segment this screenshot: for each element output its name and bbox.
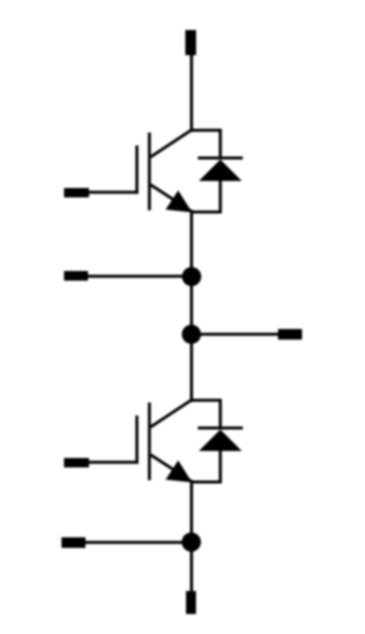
wire (gate lead of Q1) [88, 191, 138, 194]
wire (node B to P4) [192, 333, 279, 336]
terminal P3 (left pin at node A) [64, 271, 88, 281]
node C2 (Q2 collector junction) [190, 399, 220, 402]
terminal P4 (right pin at node B) [278, 329, 302, 340]
wire (Q2 emitter to node D) [190, 480, 193, 543]
diode D1 (anti-parallel with Q1) [198, 129, 243, 214]
wire (P1 to Q1 collector node) [190, 55, 193, 132]
node A (junction dot) [182, 267, 201, 286]
node E1 (Q1 emitter junction) [190, 211, 220, 214]
node D (junction dot, emitter bus) [182, 533, 201, 552]
terminal P5 (Q2 gate pin) [64, 458, 89, 467]
diode D2 (anti-parallel with Q2) [198, 399, 243, 484]
wire (node B to Q2 collector node) [190, 334, 193, 402]
node C1 (Q1 collector junction) [190, 129, 220, 132]
terminal P7 (bottom emitter pin) [186, 591, 196, 614]
wire (node A to P3) [88, 275, 192, 278]
transistor Q2 (lower IGBT) [137, 400, 192, 483]
wire (node D to P6) [86, 541, 192, 544]
wire (node A to node B) [190, 276, 193, 335]
wire (node D to P7) [190, 542, 193, 592]
node B (junction dot, phase output) [182, 325, 201, 344]
transistor Q1 (upper IGBT) [137, 130, 192, 213]
terminal P6 (left pin at node D) [62, 537, 86, 548]
wire (gate lead of Q2) [88, 461, 138, 464]
terminal P2 (Q1 gate pin) [64, 188, 89, 197]
terminal P1 (top collector pin) [185, 30, 196, 55]
wire (Q1 emitter to node A) [190, 210, 193, 277]
node E2 (Q2 emitter junction) [190, 481, 220, 484]
